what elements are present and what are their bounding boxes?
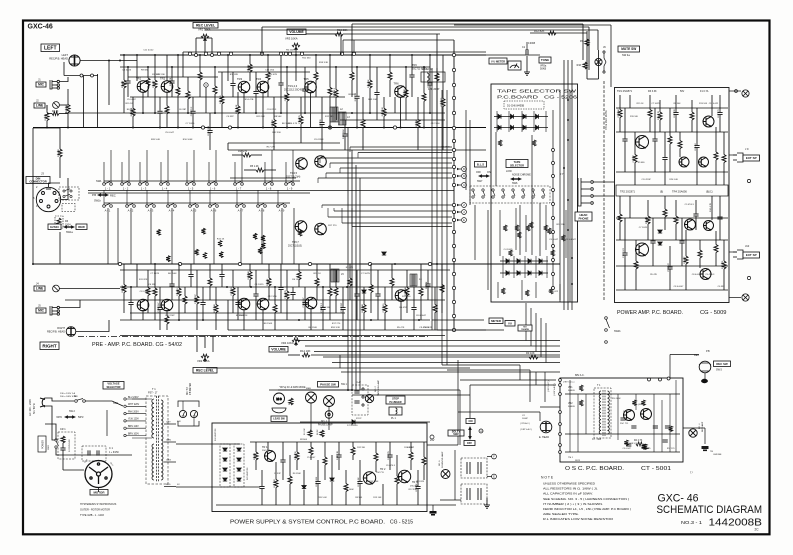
resistor R5 — [153, 288, 157, 296]
resistor L24 — [248, 64, 252, 72]
svg-text:FERRI INDUCTOR L4 , L5 , L5b: FERRI INDUCTOR L4 , L5 , L5b ( PRE AMP. … — [543, 507, 631, 511]
capacitor L29 — [278, 83, 283, 85]
svg-text:R11 82K: R11 82K — [274, 479, 276, 488]
wire head left drop — [63, 62, 65, 76]
svg-text:R17 270: R17 270 — [267, 147, 276, 149]
selector contact 240V — [124, 398, 126, 400]
wire — [427, 287, 429, 301]
resistor R10 — [183, 296, 187, 304]
capacitor L33 — [302, 89, 307, 91]
junction — [423, 66, 425, 68]
wire — [255, 297, 257, 321]
capacitor L7 — [157, 111, 162, 113]
svg-text:SELECTOR: SELECTOR — [510, 163, 524, 167]
transistor TR1 — [137, 81, 149, 93]
svg-text:C5 0.047: C5 0.047 — [622, 448, 631, 450]
wire sw drop — [240, 208, 242, 264]
wire — [316, 264, 318, 278]
resistor osc 9 — [642, 444, 646, 450]
wire — [441, 293, 443, 314]
wire sw drop — [107, 208, 109, 264]
junction — [383, 127, 385, 129]
label EXT SP 2 — [743, 252, 760, 258]
wire osc h2 — [565, 433, 680, 435]
svg-text:ARE SEALED TYPE.: ARE SEALED TYPE. — [543, 512, 579, 516]
wire osc top1 — [460, 379, 556, 381]
wire — [659, 120, 661, 132]
resistor pa23 — [663, 209, 667, 217]
transistor osc TR2 — [641, 409, 652, 420]
wire — [729, 251, 737, 253]
wire diode row1 — [494, 116, 548, 118]
wire — [675, 115, 677, 132]
terminal — [603, 51, 605, 53]
wire — [317, 460, 319, 481]
svg-text:R1 47K: R1 47K — [66, 105, 68, 113]
svg-text:R18 3.3K: R18 3.3K — [319, 62, 329, 64]
svg-text:1 - 9: 1 - 9 — [287, 187, 293, 191]
wire — [335, 296, 337, 314]
capacitor pa26 — [679, 241, 684, 243]
junction — [346, 286, 348, 288]
junction — [255, 112, 257, 114]
relay dashed box — [461, 458, 487, 478]
wire — [62, 443, 64, 448]
svg-text:SW2: SW2 — [453, 433, 459, 436]
svg-text:ON: ON — [487, 171, 491, 174]
junction — [159, 127, 161, 129]
wire sw drop — [171, 208, 173, 264]
svg-text:R12 330: R12 330 — [641, 448, 649, 450]
DIN connector J3 — [36, 187, 60, 211]
svg-text:200 = 240V 0.5A: 200 = 240V 0.5A — [60, 395, 77, 398]
label EXT SP 1 — [743, 155, 760, 161]
svg-text:R16 100K: R16 100K — [344, 489, 354, 491]
wire sw up stub — [234, 162, 236, 183]
svg-text:R5 47K: R5 47K — [397, 327, 405, 329]
wire — [391, 264, 393, 278]
svg-text:C11 0.022: C11 0.022 — [143, 50, 154, 52]
svg-text:R20 5.6K: R20 5.6K — [151, 139, 161, 141]
junction — [267, 54, 269, 56]
resistor R4 osc — [636, 442, 644, 446]
resistor vr2 — [579, 400, 583, 406]
svg-text:TM: TM — [710, 451, 713, 453]
svg-text:SW1a: SW1a — [66, 231, 73, 234]
resistor pa25 — [674, 216, 678, 224]
wire — [249, 72, 251, 81]
wire to vu — [437, 329, 504, 331]
wire — [261, 470, 263, 486]
svg-text:P.B: P.B — [92, 193, 96, 197]
transistor TR3' — [238, 298, 250, 310]
wire — [396, 455, 398, 476]
wire harness drop — [540, 318, 542, 357]
wire sw up stub — [208, 162, 210, 183]
resistor L53 — [422, 93, 426, 101]
junction — [226, 286, 228, 288]
wire — [209, 113, 211, 130]
terminal — [603, 71, 605, 73]
pause contacts dashed — [352, 385, 368, 415]
wire sw up stub — [121, 162, 123, 183]
wire — [187, 77, 189, 91]
svg-text:TR1,2,3: TR1,2,3 — [288, 84, 298, 88]
switch pin 5 — [522, 189, 525, 198]
wire pa h2 — [616, 131, 728, 133]
wire — [159, 97, 161, 111]
svg-text:REC/P.B. HEAD: REC/P.B. HEAD — [47, 331, 65, 334]
junction ring mid bus — [368, 262, 371, 265]
erase head — [540, 421, 552, 433]
wire — [486, 54, 540, 56]
label DIN connector — [26, 176, 50, 183]
diode pa2 — [658, 242, 662, 245]
capacitor R46 — [411, 308, 416, 310]
wire left edge bus — [32, 128, 34, 264]
wire — [679, 149, 681, 158]
arrows 50/60 — [64, 415, 76, 419]
capacitor osc 8 — [653, 426, 658, 428]
wire sw up stub — [264, 162, 266, 183]
wire — [619, 222, 621, 240]
svg-text:C8 0.0047: C8 0.0047 — [692, 274, 702, 276]
wire — [127, 84, 129, 98]
transistor pa TR1' — [636, 243, 649, 256]
svg-text:88V A.C.: 88V A.C. — [575, 374, 585, 377]
svg-text:C6 33P: C6 33P — [407, 447, 415, 449]
wire fan stub — [349, 147, 351, 152]
diode D7 — [352, 420, 355, 424]
svg-text:C7 10/25: C7 10/25 — [150, 273, 160, 275]
wire fan2 stub — [341, 208, 343, 223]
diode D6 — [511, 125, 514, 129]
svg-text:TYPE 1MB - 1 - 1203: TYPE 1MB - 1 - 1203 — [80, 514, 104, 517]
svg-text:GXC- 46: GXC- 46 — [658, 493, 699, 505]
svg-text:MUTE SW: MUTE SW — [621, 47, 636, 51]
switch contact A-5 — [189, 204, 199, 208]
svg-text:LEFT: LEFT — [44, 46, 57, 52]
capacitor osc 0 — [626, 444, 631, 446]
wire rec sw — [704, 373, 706, 379]
pin F — [492, 454, 497, 459]
svg-text:TAPE: TAPE — [514, 160, 521, 164]
resistor L35 — [314, 72, 318, 80]
resistor L46 — [382, 108, 386, 116]
wire sel arm — [103, 401, 123, 406]
resistor ts 1 — [498, 140, 502, 146]
terminal — [747, 179, 750, 182]
wire — [85, 400, 103, 402]
terminal board right — [552, 259, 555, 262]
resistor R1 1K h — [52, 112, 59, 116]
terminal osc edge — [559, 423, 562, 426]
wire — [356, 297, 358, 321]
wire — [405, 67, 407, 90]
svg-text:R6 150K: R6 150K — [405, 286, 407, 295]
wire pa bus — [567, 60, 569, 310]
svg-text:1 - 5: 1 - 5 — [188, 187, 194, 191]
wire — [204, 42, 206, 55]
svg-text:R5 47K: R5 47K — [346, 267, 354, 269]
svg-text:J3: J3 — [41, 172, 44, 176]
wire harness to osc — [535, 372, 537, 385]
svg-text:C7 10/25: C7 10/25 — [299, 114, 301, 124]
wire line-l — [59, 104, 68, 106]
svg-text:C 1: C 1 — [109, 447, 114, 450]
wire input col — [97, 74, 99, 128]
label MIC left — [36, 82, 46, 87]
resistor vr1 — [579, 385, 583, 391]
wire fan2 1 — [322, 204, 452, 206]
solenoid lamp — [441, 470, 450, 479]
diode D13 — [506, 271, 509, 275]
rectifier box — [220, 444, 230, 487]
capacitor L40 — [342, 134, 347, 136]
svg-text:SW6: SW6 — [512, 182, 518, 185]
inductor L6 — [410, 274, 417, 286]
label REC SW — [714, 361, 731, 367]
transistor TR4' — [257, 298, 269, 310]
wire — [286, 299, 288, 320]
terminal column — [452, 300, 455, 303]
wire — [166, 324, 168, 330]
wire — [321, 97, 323, 122]
wire — [59, 113, 68, 115]
wire sel — [127, 413, 147, 415]
diode D11 — [528, 259, 531, 263]
resistor R17 270 — [243, 153, 251, 157]
wire — [719, 115, 721, 132]
wire fan2 stub — [327, 208, 329, 217]
resistor pa31 — [714, 245, 718, 253]
resistor ps19 — [395, 476, 399, 484]
junction — [423, 127, 425, 129]
wire fan 2 — [358, 152, 452, 154]
svg-text:VR3 10KA: VR3 10KA — [285, 37, 298, 41]
label OFF2 — [464, 441, 475, 446]
resistor R16 56K — [583, 62, 587, 69]
svg-text:C5 0.047: C5 0.047 — [127, 99, 137, 101]
wire — [420, 296, 422, 320]
wire sw mid stub — [209, 190, 211, 205]
svg-text:R12 330: R12 330 — [320, 118, 322, 127]
wire — [352, 455, 354, 460]
junction — [567, 99, 569, 101]
wire — [362, 97, 364, 120]
svg-text:R6 150K: R6 150K — [292, 279, 301, 281]
wire — [664, 196, 666, 209]
wire — [132, 437, 152, 439]
svg-text:SCHEMATIC DIAGRAM: SCHEMATIC DIAGRAM — [657, 504, 763, 516]
svg-text:R14 10K: R14 10K — [300, 349, 311, 353]
wire fan2 4 — [342, 222, 452, 224]
wire — [212, 336, 214, 352]
resistor mid 6 — [253, 233, 257, 239]
resistor R1 10K — [308, 430, 312, 437]
resistor L44 — [368, 80, 372, 88]
relay contact a — [467, 462, 481, 474]
svg-text:CG - 5206: CG - 5206 — [544, 95, 577, 101]
wire — [410, 442, 412, 452]
wire to ehead — [458, 411, 540, 413]
svg-text:C5 0.047: C5 0.047 — [307, 457, 316, 459]
svg-text:R19 10K: R19 10K — [368, 99, 377, 101]
svg-text:R1 10K: R1 10K — [304, 428, 306, 435]
svg-text:TR2 2SC871: TR2 2SC871 — [620, 190, 636, 194]
svg-text:P.B & REC MUTE: P.B & REC MUTE — [605, 110, 608, 130]
terminal board right — [552, 217, 555, 220]
wire — [315, 55, 317, 72]
wire sw row1 — [104, 180, 300, 182]
switch contact A-7 — [236, 204, 246, 208]
wire — [47, 113, 52, 115]
wire — [147, 296, 149, 314]
svg-text:R19 10K: R19 10K — [368, 79, 370, 88]
wire — [295, 55, 297, 81]
wire — [295, 51, 297, 55]
terminal osc edge — [559, 444, 562, 447]
svg-text:TR6: TR6 — [394, 82, 400, 86]
svg-text:R7 1.2K: R7 1.2K — [272, 119, 274, 127]
wire — [699, 258, 701, 268]
wire — [249, 55, 251, 64]
resistor mid 1 — [203, 253, 207, 259]
terminal 24v ring — [430, 435, 434, 439]
svg-text:C10 220P: C10 220P — [165, 315, 175, 317]
wire — [232, 154, 243, 156]
svg-text:R7 1.2K: R7 1.2K — [416, 119, 418, 127]
wire — [383, 116, 385, 127]
resistor ts low — [529, 222, 533, 228]
junction — [369, 112, 371, 114]
capacitor L42 — [354, 96, 359, 98]
wire — [249, 280, 251, 288]
wire — [184, 287, 186, 296]
wire — [442, 364, 520, 366]
resistor pa11 — [690, 112, 694, 120]
junction — [298, 319, 300, 321]
wire — [275, 488, 277, 506]
svg-text:R6 82: R6 82 — [317, 429, 319, 435]
capacitor ps15 — [357, 482, 362, 484]
svg-text:R16 100K: R16 100K — [343, 129, 345, 139]
svg-text:PL 1: PL 1 — [391, 417, 396, 420]
capacitor R22 — [253, 294, 258, 296]
motor M1 — [85, 461, 112, 488]
wire — [178, 264, 180, 288]
svg-text:1 - 2: 1 - 2 — [123, 187, 129, 191]
wire — [154, 296, 156, 320]
resistor ps22 — [422, 457, 426, 465]
connector pin B — [457, 167, 466, 172]
junction — [108, 60, 110, 62]
svg-text:R16 100K: R16 100K — [612, 398, 622, 400]
resistor mid 2 — [219, 252, 223, 258]
wire — [343, 33, 440, 35]
terminal — [362, 404, 364, 406]
diode ps7 — [302, 486, 306, 489]
svg-text:C7 10/25: C7 10/25 — [186, 123, 196, 125]
arrows off/on — [478, 174, 490, 178]
wire — [214, 67, 216, 86]
wire bus3c — [128, 76, 218, 78]
wire drop1 — [582, 24, 584, 60]
wire fan 5 — [340, 167, 452, 169]
wire ts low — [515, 208, 517, 250]
svg-text:C8 0.0047: C8 0.0047 — [416, 315, 427, 317]
wire — [696, 148, 698, 185]
junction — [178, 319, 180, 321]
transformer T1 primary coil — [152, 399, 154, 438]
terminal column — [452, 96, 455, 99]
wire row bus a — [88, 190, 454, 192]
svg-text:R14 47B: R14 47B — [268, 74, 277, 76]
diode D12 — [539, 259, 542, 263]
svg-text:R5 47K: R5 47K — [650, 274, 658, 276]
resistor L38 — [334, 90, 338, 98]
wire — [396, 484, 398, 505]
wire — [243, 92, 245, 113]
junction ring mid bus — [428, 262, 431, 265]
right rec/pb head — [66, 327, 76, 337]
wire — [723, 163, 725, 186]
wire rect bottom — [176, 486, 260, 488]
wire — [221, 104, 223, 128]
resistor R0 — [122, 285, 126, 293]
wire — [377, 297, 379, 321]
wire sw row2 — [104, 202, 290, 204]
wire — [255, 72, 257, 91]
junction — [237, 127, 239, 129]
svg-text:UNLESS OTHERWISE SPECIFIED: UNLESS OTHERWISE SPECIFIED — [543, 482, 595, 486]
wire fan stub — [325, 173, 327, 178]
wire — [394, 97, 396, 113]
resistor osc 7 — [643, 444, 647, 450]
svg-text:R9 680: R9 680 — [141, 70, 149, 72]
resistor R42 — [383, 305, 387, 313]
svg-text:TR1 2SC871: TR1 2SC871 — [617, 89, 633, 93]
junction — [369, 54, 371, 56]
resistor R45 — [405, 288, 409, 296]
wire — [691, 100, 693, 112]
wire tap — [164, 486, 176, 488]
wire — [715, 160, 717, 185]
wire diode — [508, 111, 510, 132]
wire bus r bottom — [120, 335, 445, 337]
wire — [295, 336, 297, 338]
wire — [370, 293, 372, 314]
wire — [67, 113, 69, 129]
junction — [394, 263, 396, 265]
diode D5 — [498, 125, 501, 129]
wire tap — [164, 461, 176, 463]
wire — [142, 310, 144, 320]
capacitor R26 — [278, 288, 283, 290]
label MIC right — [36, 308, 46, 313]
wire harness to osc — [529, 372, 531, 380]
wire — [62, 459, 64, 470]
wire — [321, 125, 323, 150]
svg-text:E: E — [493, 475, 495, 479]
wire fan2 2 — [334, 210, 452, 212]
wire — [383, 97, 385, 108]
svg-text:C5 0.047: C5 0.047 — [618, 108, 620, 118]
wire — [193, 418, 195, 426]
svg-text:C9 47/6.3: C9 47/6.3 — [314, 139, 324, 141]
capacitor osc 5 — [620, 418, 625, 420]
wire — [391, 286, 393, 300]
